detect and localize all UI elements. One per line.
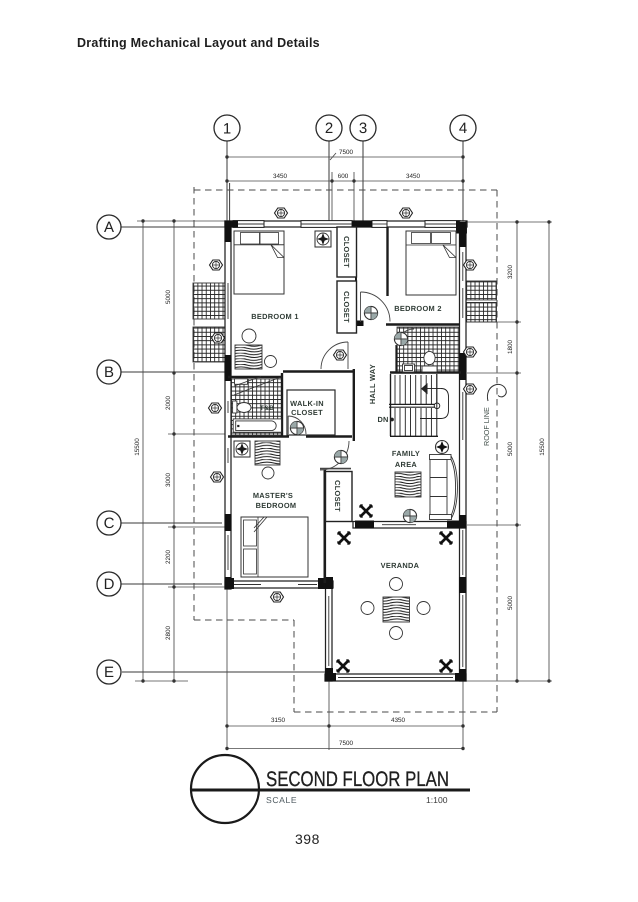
svg-text:FAMILY: FAMILY (392, 449, 420, 458)
svg-text:1: 1 (223, 121, 231, 138)
svg-text:5000: 5000 (507, 596, 514, 611)
svg-text:VERANDA: VERANDA (381, 561, 420, 570)
svg-text:CLOSET: CLOSET (333, 480, 342, 512)
svg-text:MASTER'S: MASTER'S (253, 491, 293, 500)
svg-text:5000: 5000 (507, 442, 514, 457)
svg-text:WALK-IN: WALK-IN (290, 399, 324, 408)
svg-text:CLOSET: CLOSET (342, 291, 351, 323)
svg-text:BEDROOM: BEDROOM (256, 501, 297, 510)
svg-text:C: C (104, 515, 115, 532)
svg-text:3200: 3200 (507, 265, 514, 280)
svg-text:15500: 15500 (134, 438, 141, 456)
svg-text:3450: 3450 (273, 173, 288, 180)
svg-text:SECOND FLOOR PLAN: SECOND FLOOR PLAN (266, 768, 449, 791)
svg-text:7500: 7500 (339, 149, 354, 156)
svg-text:600: 600 (338, 173, 349, 180)
svg-text:4: 4 (459, 120, 467, 137)
svg-text:3: 3 (359, 120, 367, 137)
svg-text:B: B (104, 364, 114, 381)
svg-text:AREA: AREA (395, 460, 418, 469)
svg-text:T&B: T&B (260, 405, 274, 412)
svg-text:E: E (104, 664, 114, 681)
svg-text:1800: 1800 (507, 340, 514, 355)
svg-text:CLOSET: CLOSET (342, 236, 351, 268)
svg-text:DN: DN (377, 415, 388, 424)
svg-text:2200: 2200 (165, 550, 172, 565)
svg-text:SCALE: SCALE (266, 795, 297, 805)
svg-text:BEDROOM 2: BEDROOM 2 (394, 304, 441, 313)
svg-text:1:100: 1:100 (426, 795, 448, 805)
svg-text:3450: 3450 (406, 173, 421, 180)
svg-text:2: 2 (325, 120, 333, 137)
svg-text:15500: 15500 (539, 438, 546, 456)
svg-text:D: D (104, 576, 115, 593)
svg-text:2000: 2000 (165, 396, 172, 411)
svg-text:5000: 5000 (165, 290, 172, 305)
svg-text:3150: 3150 (271, 717, 286, 724)
svg-text:4350: 4350 (391, 717, 406, 724)
svg-text:7500: 7500 (339, 740, 354, 747)
svg-text:ROOF LINE: ROOF LINE (482, 407, 491, 446)
svg-text:A: A (104, 219, 114, 236)
svg-text:CLOSET: CLOSET (291, 408, 323, 417)
svg-text:BEDROOM 1: BEDROOM 1 (251, 312, 298, 321)
svg-text:3000: 3000 (165, 473, 172, 488)
svg-text:2800: 2800 (165, 626, 172, 641)
svg-text:HALL WAY: HALL WAY (368, 364, 377, 404)
